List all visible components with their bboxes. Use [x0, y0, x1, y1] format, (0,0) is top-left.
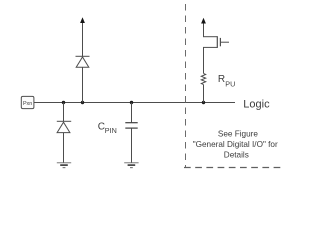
power arrow VCC (left) — [80, 17, 85, 23]
svg-text:PU: PU — [225, 80, 235, 89]
transistor Q1 pull-up MOSFET — [203, 36, 229, 48]
svg-text:See Figure: See Figure — [218, 129, 258, 138]
svg-text:PIN: PIN — [105, 126, 117, 135]
wire: horizontal pin bus — [34, 102, 235, 104]
wire: transistor source to VCC arrow — [203, 22, 205, 37]
resistor R_PU — [201, 73, 205, 84]
label R_PU — [218, 74, 235, 88]
power arrow VCC (right) — [201, 18, 206, 24]
wire: diode to VCC arrow — [82, 22, 84, 57]
wire: resistor to transistor — [203, 47, 205, 73]
svg-text:R: R — [218, 74, 225, 85]
wire: pull-up branch (bus to resistor) — [203, 85, 205, 103]
node junction dot (pull-up) — [202, 101, 205, 104]
wire: diode to ground — [63, 133, 65, 163]
wire: capacitor to ground — [131, 128, 133, 163]
dashed boundary horizontal — [184, 167, 284, 169]
svg-text:"General Digital I/O" for: "General Digital I/O" for — [193, 140, 278, 149]
ground (left) — [57, 163, 71, 168]
node junction dot (down diode) — [62, 101, 65, 104]
dashed boundary vertical — [185, 4, 187, 168]
ground (capacitor) — [124, 163, 138, 168]
wire: down-diode branch vertical — [63, 103, 65, 122]
wire: capacitor branch top — [131, 103, 133, 123]
wire: up-diode branch vertical — [82, 67, 84, 102]
svg-text:Logic: Logic — [243, 98, 270, 110]
svg-text:Pxn: Pxn — [23, 101, 32, 107]
pad box Pxn — [21, 96, 34, 108]
node junction dot (capacitor) — [130, 101, 133, 104]
diode D2 (clamp to GND) — [57, 121, 71, 132]
node junction dot (up diode) — [81, 101, 84, 104]
label C_PIN — [98, 122, 117, 136]
note text: see figure — [193, 129, 278, 159]
capacitor C_PIN — [125, 123, 137, 128]
svg-text:Details: Details — [224, 150, 249, 159]
diode D1 (clamp to VCC) — [76, 56, 90, 67]
